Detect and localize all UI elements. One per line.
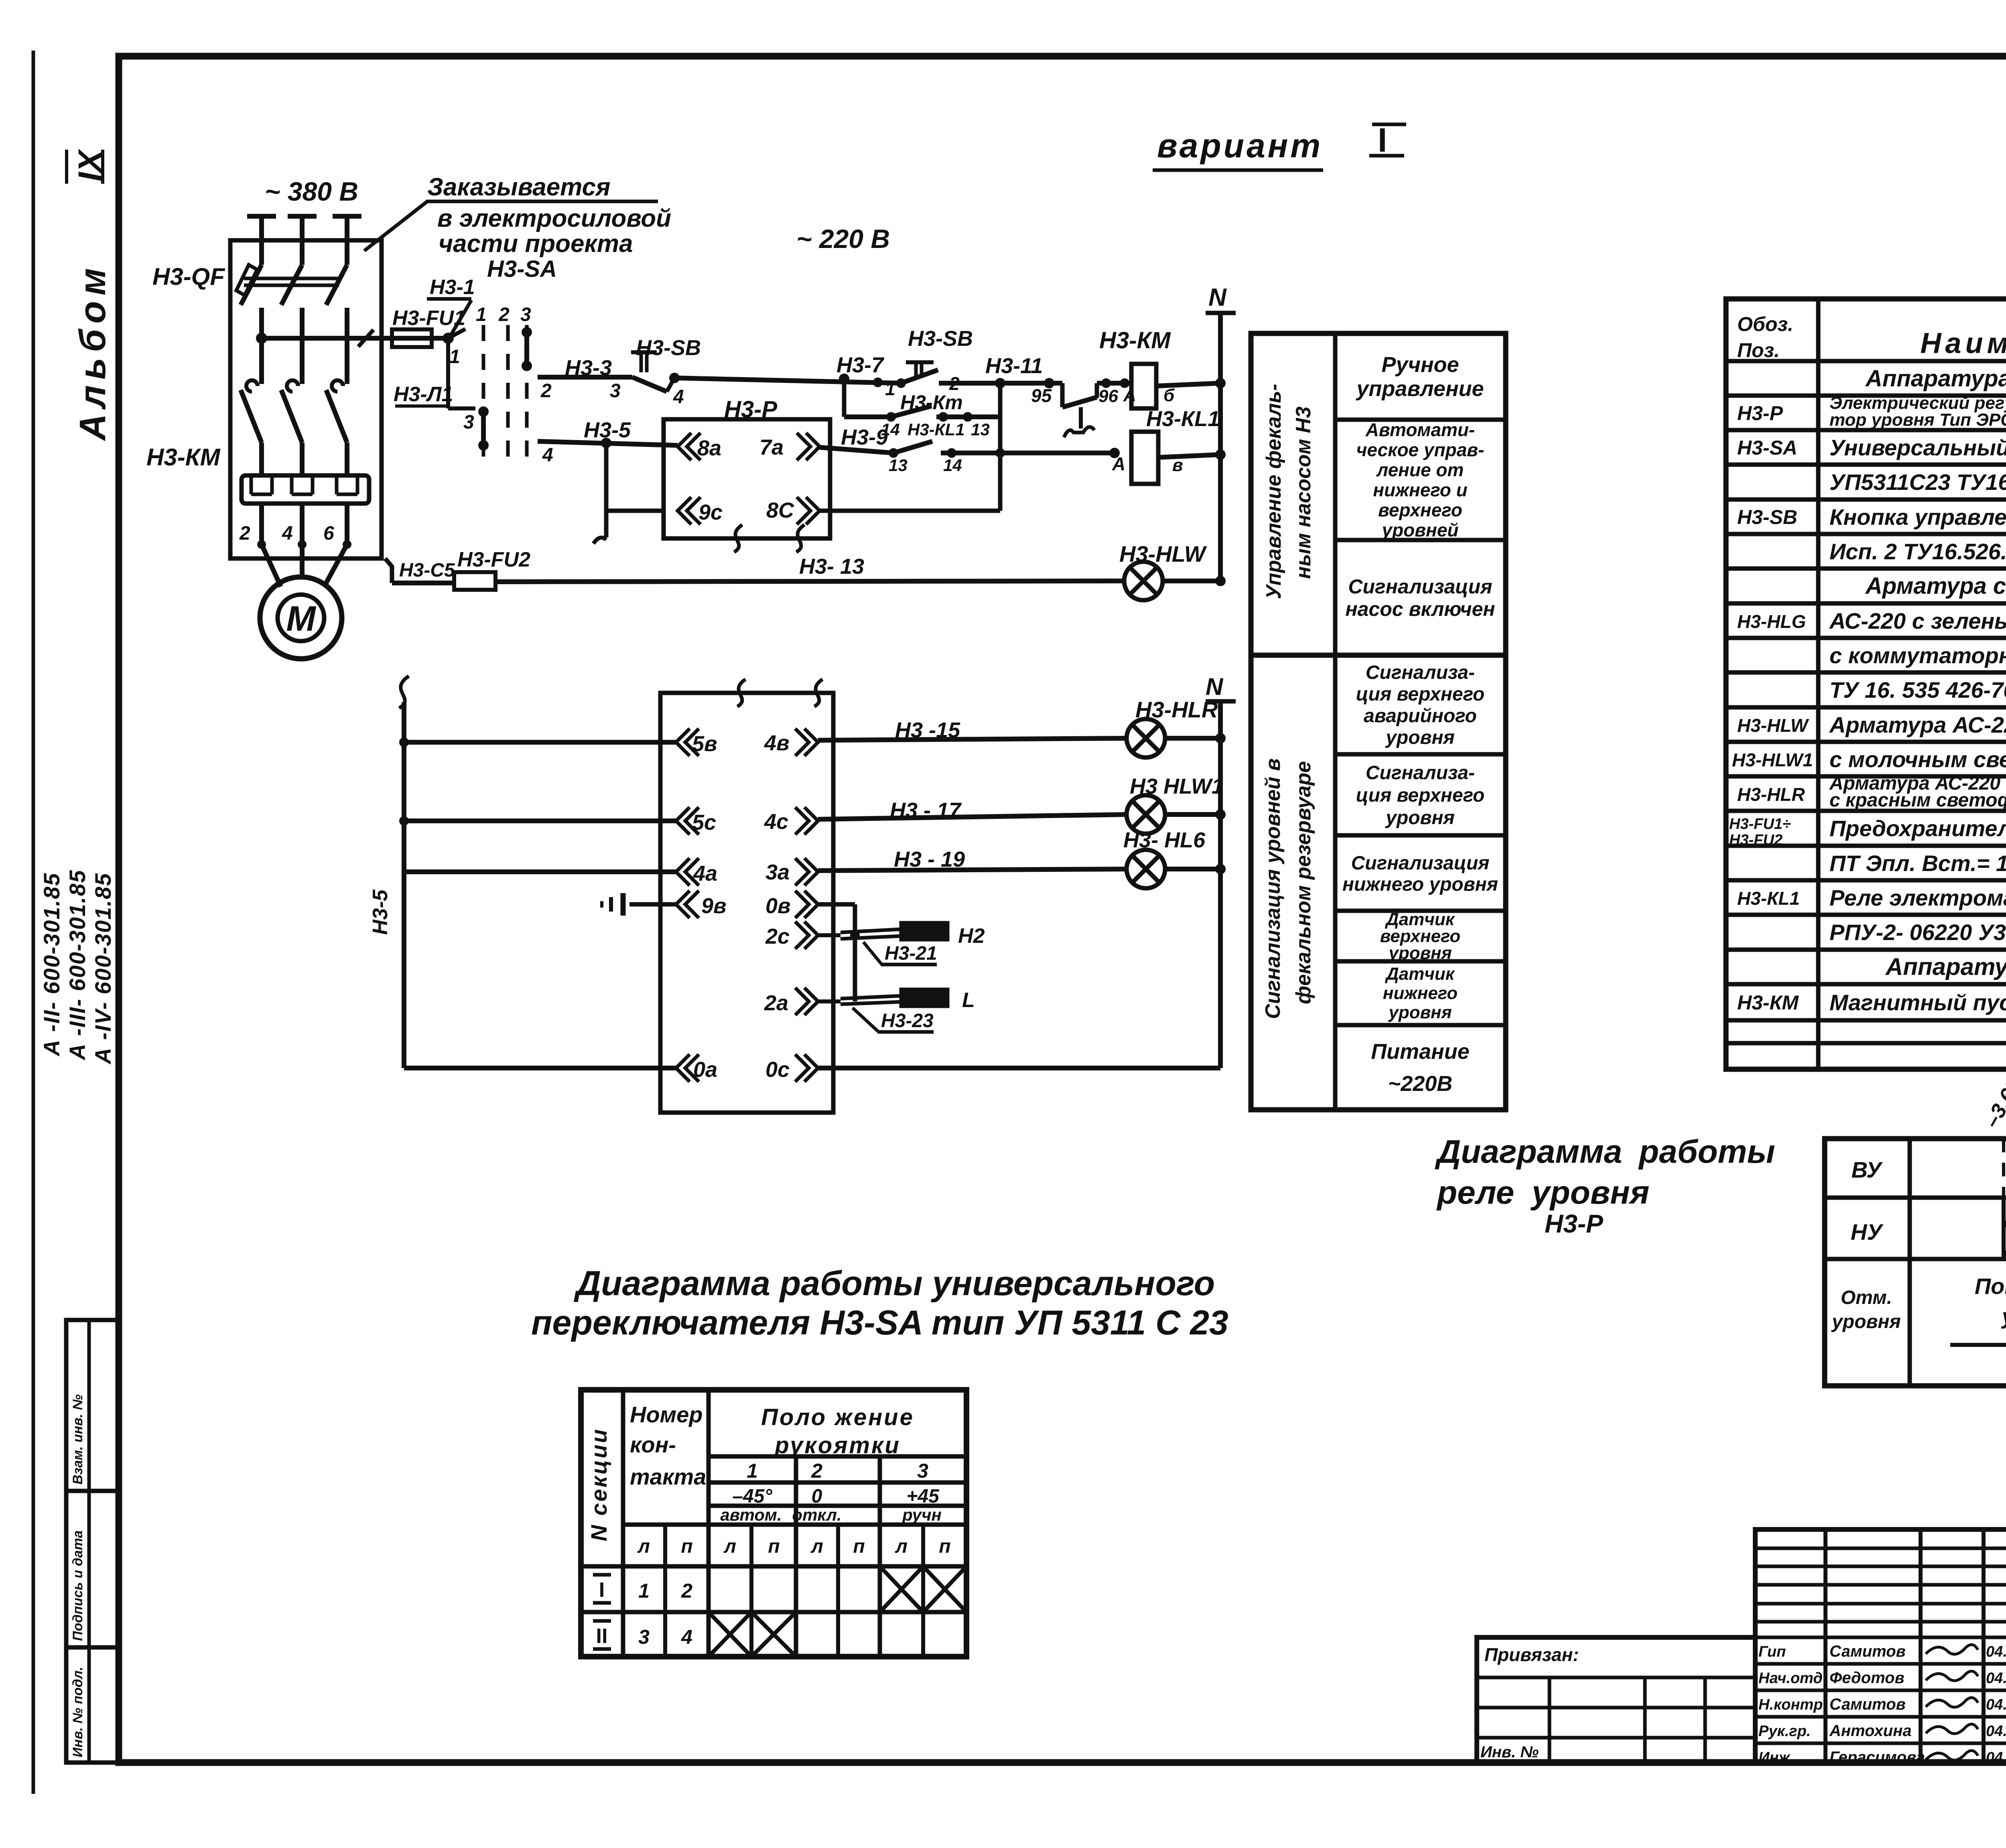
svg-text:автом.: автом. [720,1505,782,1524]
svg-text:Н3- 13: Н3- 13 [799,554,864,579]
svg-text:такта: такта [630,1464,706,1489]
svg-text:Н3-КМ: Н3-КМ [1099,327,1171,353]
svg-text:Н2: Н2 [958,924,985,948]
svg-text:Н3-SB: Н3-SB [908,327,973,351]
svg-text:96: 96 [1098,386,1118,406]
svg-text:РПУ-2- 06220 У3Б ТУ 16.523.: РПУ-2- 06220 У3Б ТУ 16.523.331-78 [1829,920,2006,945]
svg-text:Н.контр: Н.контр [1758,1696,1823,1713]
svg-text:+45: +45 [906,1486,940,1507]
svg-text:Н3 -15: Н3 -15 [895,718,960,742]
svg-text:~ 220 В: ~ 220 В [796,224,890,254]
svg-text:3: 3 [520,304,531,325]
svg-text:1: 1 [476,304,487,325]
svg-text:Номер: Номер [630,1402,703,1427]
svg-text:Питание: Питание [1371,1040,1470,1064]
svg-text:Гип: Гип [1758,1643,1786,1660]
svg-text:~220В: ~220В [1388,1072,1453,1096]
svg-text:Н3-Р: Н3-Р [1737,402,1783,424]
svg-text:Заказывается: Заказывается [427,173,610,201]
svg-text:М: М [286,599,316,638]
svg-text:в электросиловой: в электросиловой [437,205,671,232]
svg-text:с коммутаторной лампой РНЦ-2: с коммутаторной лампой РНЦ-220-10 [1829,643,2006,668]
svg-text:нижнего: нижнего [1383,983,1458,1003]
svg-text:Диаграмма работы универсальн: Диаграмма работы универсального [573,1264,1215,1303]
svg-text:Диаграмма: Диаграмма [1435,1133,1622,1170]
svg-text:Предохранитель трубчатый: Предохранитель трубчатый [1829,816,2006,841]
svg-text:5с: 5с [692,810,716,835]
svg-text:А -III- 600-301.85: А -III- 600-301.85 [65,869,90,1061]
svg-text:Сигнализа-: Сигнализа- [1366,662,1475,683]
svg-text:Наименование: Наименование [1921,327,2006,359]
svg-text:Рук.гр.: Рук.гр. [1758,1723,1811,1740]
svg-text:8С: 8С [766,498,794,522]
svg-text:Инв. №: Инв. № [1480,1743,1539,1761]
svg-text:13: 13 [889,456,908,475]
svg-text:нижнего и: нижнего и [1373,479,1468,500]
svg-text:Н3-HLW: Н3-HLW [1737,715,1809,736]
svg-text:0в: 0в [765,894,791,918]
svg-text:Н3-1: Н3-1 [430,276,475,299]
svg-text:Н3-Кm: Н3-Кm [900,391,963,414]
svg-text:Н3-HLG: Н3-HLG [1737,611,1806,632]
svg-text:4: 4 [673,386,684,408]
svg-text:Универсальный переключатель: Универсальный переключатель [1829,435,2006,460]
svg-text:Инж.: Инж. [1758,1749,1794,1766]
svg-text:Н3-FU2: Н3-FU2 [1729,832,1783,849]
svg-text:5в: 5в [692,732,717,756]
svg-text:Взам. инв. №: Взам. инв. № [70,1394,85,1484]
svg-text:1: 1 [449,346,460,368]
svg-text:Привязан:: Привязан: [1484,1644,1579,1665]
svg-text:Н3-7: Н3-7 [837,353,885,377]
svg-text:ным насосом Н3: ным насосом Н3 [1292,406,1315,579]
svg-text:Н3 - 19: Н3 - 19 [894,847,965,871]
svg-text:откл.: откл. [792,1505,841,1524]
svg-text:Исп. 2 ТУ16.526.407-79: Исп. 2 ТУ16.526.407-79 [1829,539,2006,564]
svg-text:фекальном резервуаре: фекальном резервуаре [1292,761,1315,1004]
svg-text:~ 380 В: ~ 380 В [265,177,358,206]
svg-text:Антохина: Антохина [1829,1722,1912,1740]
svg-text:–45°: –45° [732,1486,772,1507]
svg-text:п: п [768,1536,780,1557]
svg-text:Самитов: Самитов [1829,1696,1906,1713]
svg-text:I: I [599,1578,605,1602]
svg-text:тор уровня Тип ЭРСУ-3 ТУ25.02.: тор уровня Тип ЭРСУ-3 ТУ25.02.080.676-76 [1829,410,2006,430]
svg-text:Сигнализация уровней в: Сигнализация уровней в [1261,758,1285,1019]
svg-text:1: 1 [747,1460,758,1482]
svg-text:нижнего уровня: нижнего уровня [1342,874,1498,895]
svg-text:кон-: кон- [630,1432,676,1457]
svg-text:части проекта: части проекта [439,230,633,258]
svg-text:л: л [723,1536,736,1557]
svg-text:Подпись и дата: Подпись и дата [70,1530,85,1641]
svg-text:ция верхнего: ция верхнего [1356,785,1485,806]
svg-text:А: А [1112,453,1125,474]
svg-text:Повышение: Повышение [1975,1273,2006,1299]
svg-text:Н3-КL1: Н3-КL1 [1146,407,1220,431]
svg-text:Инв. № подл.: Инв. № подл. [70,1667,85,1757]
svg-text:НУ: НУ [1851,1219,1884,1245]
svg-text:Арматура АС-220: Арматура АС-220 [1829,712,2006,737]
svg-text:ВУ: ВУ [1852,1157,1883,1182]
svg-text:3: 3 [610,380,621,402]
svg-text:Н3-23: Н3-23 [881,1010,934,1032]
svg-text:Альбом: Альбом [72,262,113,441]
svg-text:Н3 - 17: Н3 - 17 [890,798,962,822]
svg-text:2: 2 [498,304,510,325]
svg-text:Н3-КL1: Н3-КL1 [908,420,965,439]
svg-text:3: 3 [917,1460,928,1482]
svg-text:Сигнализа-: Сигнализа- [1366,762,1475,784]
svg-text:N: N [1208,284,1227,311]
svg-text:ТУ 16. 535 426-70: ТУ 16. 535 426-70 [1829,677,2006,703]
svg-text:1: 1 [885,378,895,399]
svg-text:уровня: уровня [1388,1003,1452,1022]
svg-text:Н3-Л1: Н3-Л1 [394,383,453,406]
svg-text:п: п [681,1536,692,1557]
svg-text:Н3-С5: Н3-С5 [399,560,455,581]
svg-text:уровня: уровня [1530,1174,1649,1211]
svg-text:управление: управление [1355,377,1484,401]
svg-text:Аппаратура по месту: Аппаратура по месту [1885,953,2006,980]
svg-text:N: N [1206,673,1224,700]
svg-text:Отм.: Отм. [1841,1287,1892,1308]
svg-text:4в: 4в [764,731,790,755]
svg-text:0с: 0с [765,1058,790,1082]
svg-text:Н3-SA: Н3-SA [1737,437,1797,459]
svg-text:4а: 4а [693,861,717,885]
svg-text:1: 1 [638,1580,650,1602]
svg-text:II: II [596,1625,608,1648]
svg-text:2с: 2с [765,924,790,948]
svg-text:ПТ Эпл. Вст.= 1А ТУ3: ПТ Эпл. Вст.= 1А ТУ36 .1101-71 [1829,851,2006,876]
svg-text:Поло жение: Поло жение [761,1404,914,1430]
svg-text:2а: 2а [764,991,788,1015]
svg-text:Сигнализация: Сигнализация [1351,853,1490,874]
svg-text:верхнего: верхнего [1378,500,1462,520]
svg-text:–3,650: –3,650 [1980,1065,2006,1132]
svg-text:Ручное: Ручное [1381,353,1459,377]
svg-text:95: 95 [1031,385,1052,406]
svg-text:7а: 7а [759,435,784,459]
svg-text:L: L [962,989,975,1012]
svg-text:3а: 3а [765,860,790,884]
svg-text:4: 4 [542,445,553,466]
svg-text:Н3-Р: Н3-Р [724,396,777,422]
svg-text:л: л [637,1536,650,1557]
svg-text:04.84: 04.84 [1986,1723,2006,1740]
svg-text:04.84: 04.84 [1986,1749,2006,1766]
svg-text:л: л [810,1536,823,1557]
svg-text:6: 6 [323,523,334,544]
svg-text:2: 2 [540,380,552,402]
svg-text:4с: 4с [764,810,788,834]
svg-text:3: 3 [638,1626,650,1648]
svg-text:Н3-HLW1: Н3-HLW1 [1732,749,1813,770]
svg-text:Н3-FU2: Н3-FU2 [457,548,530,571]
svg-text:л: л [895,1536,908,1557]
svg-text:уровней: уровней [1381,520,1458,540]
svg-text:Арматура светосигнальная: Арматура светосигнальная [1865,573,2006,599]
svg-text:А -IV- 600-301.85: А -IV- 600-301.85 [90,873,116,1065]
svg-text:04.84: 04.84 [1986,1696,2006,1713]
svg-text:Реле электромагнитное, И~220: Реле электромагнитное, И~220В [1829,885,2006,910]
svg-text:Н3-21: Н3-21 [885,943,937,964]
svg-text:ление от: ление от [1376,459,1464,480]
svg-text:п: п [853,1536,865,1557]
svg-text:04.84: 04.84 [1986,1670,2006,1687]
svg-text:с молочным светофильтром: с молочным светофильтром [1829,747,2006,772]
svg-text:14: 14 [943,456,962,475]
svg-text:2: 2 [681,1580,692,1602]
svg-text:Н3- HL6: Н3- HL6 [1123,828,1206,852]
svg-text:Обоз.: Обоз. [1737,313,1793,335]
svg-text:Н3-FU1÷: Н3-FU1÷ [1729,816,1791,833]
svg-text:Н3-SA: Н3-SA [487,256,557,282]
svg-text:Н3-9: Н3-9 [841,425,888,449]
svg-text:АС-220 с зеленым светофиль: АС-220 с зеленым светофильтром [1829,608,2006,634]
svg-text:Н3-5: Н3-5 [369,889,392,935]
svg-text:п: п [939,1536,950,1557]
svg-text:в: в [1172,455,1183,475]
svg-text:04.84: 04.84 [1986,1643,2006,1660]
svg-text:Самитов: Самитов [1829,1643,1906,1660]
svg-text:работы: работы [1638,1133,1775,1170]
svg-text:3: 3 [463,412,474,433]
svg-text:б: б [1163,386,1175,405]
svg-text:Н3-КМ: Н3-КМ [146,444,221,471]
svg-text:уровня: уровня [2001,1304,2006,1329]
svg-text:Н3-HLR: Н3-HLR [1737,784,1805,805]
svg-text:уровня: уровня [1388,943,1452,963]
svg-text:Поз.: Поз. [1737,339,1780,361]
svg-text:Автомати-: Автомати- [1365,419,1475,440]
svg-text:4: 4 [681,1626,692,1648]
svg-text:Аппаратура на щите ( ЩУН N2): Аппаратура на щите ( ЩУН N2) [1865,366,2006,392]
svg-text:Н3-Р: Н3-Р [1545,1209,1603,1238]
svg-text:Н3-SB: Н3-SB [1737,506,1797,528]
svg-text:ручн: ручн [902,1505,942,1524]
svg-text:0: 0 [812,1486,822,1507]
svg-text:N секции: N секции [586,1428,611,1541]
svg-text:переключателя Н3-SA ти: переключателя Н3-SA тип УП 5311 С 23 [531,1304,1228,1342]
svg-text:аварийного: аварийного [1364,705,1477,727]
svg-text:уровня: уровня [1831,1311,1901,1332]
svg-text:Н3-КL1: Н3-КL1 [1737,888,1800,909]
svg-text:0а: 0а [693,1058,717,1082]
svg-text:с красным светофильтром: с красным светофильтром [1829,790,2006,811]
svg-text:Н3-QF: Н3-QF [152,263,225,290]
svg-text:2: 2 [239,523,250,544]
svg-text:Н3-КМ: Н3-КМ [1737,991,1799,1014]
svg-text:Н3-SB: Н3-SB [636,336,701,360]
svg-text:Кнопка управления типа КЕ-0: Кнопка управления типа КЕ-011 [1829,504,2006,530]
svg-text:А -II- 600-301.85: А -II- 600-301.85 [39,873,64,1057]
svg-text:реле: реле [1436,1174,1514,1211]
svg-text:Н3-11: Н3-11 [985,354,1043,378]
svg-text:ция верхнего: ция верхнего [1356,684,1485,705]
svg-text:Федотов: Федотов [1829,1669,1904,1687]
svg-text:Сигнализация: Сигнализация [1348,575,1492,598]
svg-text:I: I [1378,121,1387,159]
svg-text:8а: 8а [697,436,721,460]
svg-text:УП5311С23 ТУ16. 524. 074: УП5311С23 ТУ16. 524. 074 -75 [1829,469,2006,495]
svg-text:13: 13 [971,420,990,439]
svg-text:уровня: уровня [1385,807,1455,829]
svg-text:4: 4 [282,523,293,544]
svg-text:уровня: уровня [1385,727,1455,748]
svg-text:Герасимова: Герасимова [1829,1748,1925,1766]
svg-text:9с: 9с [698,500,723,524]
svg-text:ческое управ-: ческое управ- [1356,439,1484,460]
svg-text:насос включен: насос включен [1345,598,1495,620]
svg-text:9в: 9в [701,894,727,918]
svg-text:Нач.отд: Нач.отд [1758,1670,1823,1687]
svg-text:Датчик: Датчик [1385,964,1456,984]
svg-text:Управление фекаль-: Управление фекаль- [1262,384,1285,599]
svg-text:2: 2 [811,1460,822,1482]
svg-text:вариант: вариант [1157,127,1323,164]
svg-text:Магнитный пускатель ПМЛ: Магнитный пускатель ПМЛ [1829,990,2006,1015]
